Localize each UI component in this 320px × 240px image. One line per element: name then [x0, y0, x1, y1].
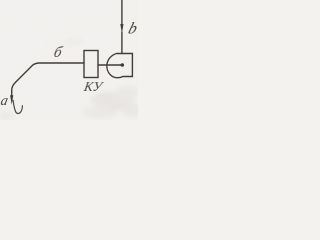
wire: vertical line below arrow into actuator [121, 32, 123, 54]
wire: vertical input line from top with arrow v [121, 0, 123, 25]
arrowhead on wire a (pointing down) [10, 95, 13, 105]
arrowhead on wire v (pointing down) [120, 24, 123, 34]
paper noise shading bottom-right [0, 38, 142, 120]
junction dot node [121, 63, 125, 67]
hook curve at a [13, 100, 22, 113]
background paper [0, 0, 138, 120]
command unit KU box [84, 51, 98, 78]
actuator (circle + square body) [107, 54, 133, 78]
wire: link from a up to horizontal line b into KU [12, 63, 84, 96]
scan grain [0, 0, 138, 120]
wire: KU output line to dot [98, 64, 121, 66]
